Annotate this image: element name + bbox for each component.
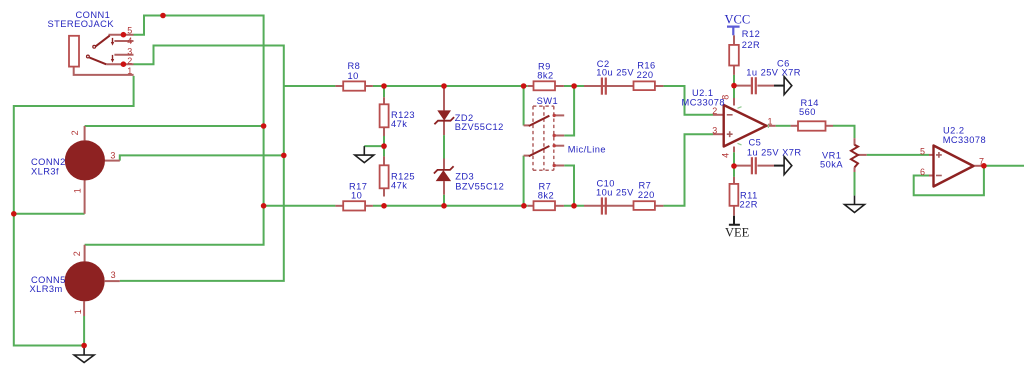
svg-text:8k2: 8k2 [537, 71, 553, 81]
svg-text:VEE: VEE [725, 225, 750, 239]
svg-text:6: 6 [920, 167, 925, 177]
svg-text:R16: R16 [637, 60, 655, 70]
svg-text:3: 3 [110, 150, 115, 160]
svg-text:MC33078: MC33078 [943, 135, 986, 145]
svg-text:C5: C5 [749, 137, 762, 147]
svg-text:10: 10 [351, 191, 362, 201]
svg-text:4: 4 [127, 36, 132, 46]
svg-text:8k2: 8k2 [538, 191, 554, 201]
svg-text:SW1: SW1 [537, 96, 559, 106]
svg-text:BZV55C12: BZV55C12 [455, 182, 504, 192]
svg-text:2: 2 [70, 130, 80, 135]
svg-text:47k: 47k [391, 180, 407, 190]
svg-text:XLR3m: XLR3m [30, 284, 63, 294]
svg-text:1u 25V X7R: 1u 25V X7R [746, 67, 801, 77]
svg-text:2: 2 [127, 56, 132, 66]
svg-text:R12: R12 [742, 29, 760, 39]
svg-text:BZV55C12: BZV55C12 [455, 122, 504, 132]
svg-text:10u 25V: 10u 25V [596, 68, 634, 78]
svg-text:5: 5 [920, 147, 925, 157]
svg-text:R8: R8 [348, 61, 361, 71]
svg-text:22R: 22R [740, 200, 758, 210]
svg-text:7: 7 [979, 156, 984, 166]
svg-text:ZD3: ZD3 [455, 172, 474, 182]
svg-text:50kA: 50kA [820, 160, 843, 170]
svg-text:1: 1 [73, 309, 83, 314]
svg-text:220: 220 [638, 190, 655, 200]
svg-text:1: 1 [127, 66, 132, 76]
svg-text:XLR3f: XLR3f [31, 166, 59, 176]
svg-text:5: 5 [127, 26, 132, 36]
svg-text:1: 1 [73, 188, 83, 193]
svg-text:2: 2 [72, 251, 82, 256]
svg-text:560: 560 [799, 107, 816, 117]
svg-text:3: 3 [712, 126, 717, 136]
svg-text:1: 1 [768, 116, 773, 126]
svg-text:MC33078: MC33078 [682, 97, 725, 107]
svg-text:220: 220 [637, 70, 654, 80]
svg-text:2: 2 [712, 106, 717, 116]
svg-text:8: 8 [721, 94, 731, 99]
svg-text:47k: 47k [391, 119, 407, 129]
svg-text:STEREOJACK: STEREOJACK [48, 19, 115, 29]
svg-text:10u 25V: 10u 25V [596, 188, 634, 198]
svg-text:10: 10 [348, 71, 359, 81]
svg-text:Mic/Line: Mic/Line [568, 145, 606, 155]
svg-text:VCC: VCC [725, 13, 751, 27]
svg-text:22R: 22R [742, 40, 760, 50]
svg-text:4: 4 [721, 152, 731, 157]
svg-text:3: 3 [111, 270, 116, 280]
svg-text:1u 25V X7R: 1u 25V X7R [747, 147, 802, 157]
